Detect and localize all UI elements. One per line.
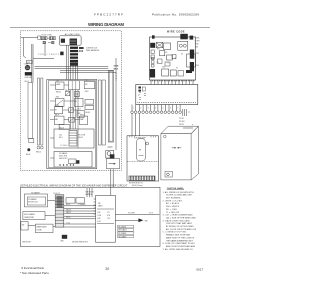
board left mid column [151, 57, 154, 60]
svg-text:DETAILED ELECTRICAL WIRING DIA: DETAILED ELECTRICAL WIRING DIAGRAM OF TH… [20, 184, 128, 187]
svg-text:WH-22: WH-22 [78, 137, 83, 139]
svg-text:RD-80: RD-80 [85, 112, 90, 114]
channel wire [115, 58, 117, 150]
svg-text:TO UI: TO UI [149, 212, 154, 214]
dispenser slot [137, 139, 146, 161]
svg-text:BK-55: BK-55 [66, 204, 70, 206]
stack side marks [79, 47, 84, 49]
title rule [10, 27, 210, 29]
svg-text:5 YL: 5 YL [107, 212, 110, 214]
svg-text:K3: K3 [181, 53, 183, 55]
svg-text:F: F [192, 124, 193, 126]
svg-text:THE SAME NUMBERING BUT: THE SAME NUMBERING BUT [166, 239, 194, 242]
svg-text:WH-55: WH-55 [66, 209, 71, 211]
svg-text:FPBC2277RF: FPBC2277RF [94, 13, 123, 17]
right channel strip 2 [102, 80, 105, 145]
ui pin numbers [133, 108, 178, 110]
thermostat box [23, 212, 45, 220]
icemaker detail box [20, 187, 160, 246]
detail vertical wires [87, 188, 92, 197]
svg-text:BR-77: BR-77 [55, 115, 59, 117]
connector box B [76, 198, 84, 204]
cabinet outline [20, 31, 121, 171]
svg-text:3. CUT = WIRE NUMBER AND: 3. CUT = WIRE NUMBER AND [163, 214, 194, 217]
svg-text:CAUTION LABEL: CAUTION LABEL [167, 187, 185, 190]
svg-text:2. WIRE COLORS:: 2. WIRE COLORS: [163, 200, 183, 202]
damper box with arrow [107, 159, 120, 169]
left heater strip B [37, 78, 39, 145]
dispenser board sub box [96, 195, 116, 242]
svg-text:FEMALE SIDE IS SHOWN: FEMALE SIDE IS SHOWN [166, 234, 191, 237]
row2 box 1 [56, 98, 65, 106]
board relay K1 [156, 43, 163, 48]
svg-text:FZ DOOR: FZ DOOR [78, 135, 86, 137]
strip A terminal [27, 148, 30, 151]
iso sketch corner circle [164, 135, 167, 138]
channel terminal [106, 151, 114, 159]
svg-text:CIRCUITS THAT MAY VARY: CIRCUITS THAT MAY VARY [166, 222, 193, 225]
right column marks [85, 100, 94, 105]
svg-text:1 BK: 1 BK [97, 212, 100, 214]
ui board comp 2 [138, 90, 141, 92]
svg-text:CN1: CN1 [195, 47, 198, 49]
board top connector 1 [180, 34, 188, 40]
board right connector 1 [190, 50, 194, 59]
row5 glyph [69, 117, 75, 122]
dispenser divider [127, 160, 159, 162]
svg-text:40-50 (Conn): 40-50 (Conn) [132, 185, 143, 187]
row4 mid box [77, 110, 84, 117]
svg-text:YL-55: YL-55 [66, 222, 70, 224]
FF light switch box [84, 82, 95, 89]
svg-text:7 GY: 7 GY [107, 218, 110, 220]
board left connector 1 [152, 35, 155, 38]
row3 box 1 [54, 107, 62, 114]
svg-text:WH-41: WH-41 [56, 91, 61, 93]
label row 1 [118, 225, 134, 228]
svg-text:WH-14: WH-14 [36, 152, 41, 154]
ui terminal pins [132, 105, 180, 111]
svg-text:CN3: CN3 [195, 65, 198, 67]
svg-text:TH: TH [55, 109, 57, 111]
wires ui to dispenser [131, 114, 133, 136]
water valve box [35, 224, 53, 233]
svg-text:C13: C13 [56, 80, 59, 82]
main power board [150, 37, 196, 80]
svg-text:SEE NOTE 7: SEE NOTE 7 [59, 158, 68, 160]
board top connector 2 [190, 36, 194, 40]
ui board pin row [138, 102, 197, 104]
wire to right 1 [115, 214, 159, 216]
switch glyph 1 [65, 91, 69, 95]
svg-text:5017: 5017 [196, 267, 203, 271]
svg-text:5. CONNECTOR PINS:: 5. CONNECTOR PINS: [163, 232, 187, 234]
svg-text:SEE NOTE 2: SEE NOTE 2 [22, 242, 31, 244]
svg-text:Q1: Q1 [174, 58, 176, 60]
run capacitor [25, 72, 32, 75]
svg-text:BK = BLACK: BK = BLACK [166, 202, 180, 205]
wire bundle verticals [70, 62, 78, 79]
coil glyph [60, 52, 63, 56]
svg-text:TN-6: TN-6 [75, 97, 78, 99]
svg-text:AC LINE CORD: AC LINE CORD [65, 33, 80, 36]
wires damper to detail box [110, 169, 112, 195]
svg-text:4 OR: 4 OR [97, 221, 100, 223]
row5 box 1 [54, 116, 64, 124]
svg-text:P/N: P/N [98, 203, 101, 205]
wire border down to starter [23, 38, 25, 57]
right channel strip 1 [98, 80, 101, 145]
svg-text:MOTOR 120V: MOTOR 120V [28, 202, 37, 204]
board comp b2 [170, 70, 176, 76]
svg-text:5: 5 [116, 80, 117, 82]
svg-text:MALE SIDE OF THE CONN IS: MALE SIDE OF THE CONN IS [166, 236, 195, 239]
dispenser switch [146, 142, 149, 145]
row3 glyph [69, 108, 74, 113]
wire horizontals to right channels [29, 44, 117, 80]
svg-text:# Functional Parts: # Functional Parts [21, 266, 44, 270]
power plug connector pair [38, 36, 56, 44]
board left connector 2 [150, 43, 155, 48]
svg-text:3 RD: 3 RD [97, 218, 100, 220]
sub box pin list [97, 212, 110, 223]
label row 2 [118, 229, 134, 232]
main channel duct [108, 71, 113, 143]
wire to right 2 [115, 219, 138, 221]
svg-text:WH = WHITE: WH = WHITE [166, 206, 180, 208]
dispenser top edge ticks [130, 136, 156, 138]
svg-text:7. ALL WIRE GAUGES ARE 18: 7. ALL WIRE GAUGES ARE 18 [163, 248, 193, 251]
svg-text:1 2 3 4 5 6: 1 2 3 4 5 6 [60, 145, 67, 147]
svg-text:LT GREEN: LT GREEN [78, 204, 85, 206]
icemaker unit inner [27, 197, 45, 205]
freezer sub box [54, 129, 94, 148]
svg-text:SEE NOTE 4: SEE NOTE 4 [85, 192, 94, 194]
svg-text:6 TN: 6 TN [107, 215, 110, 217]
icemaker wires [28, 201, 96, 227]
svg-text:RD = RED: RD = RED [166, 209, 178, 211]
board bottom pin row [151, 80, 196, 82]
svg-text:DOORS CLOSED AND UNIT: DOORS CLOSED AND UNIT [166, 194, 193, 197]
board diode marks [186, 70, 192, 73]
sub box pins [94, 199, 96, 214]
label row 3 [118, 232, 134, 235]
svg-text:WH-8: WH-8 [114, 69, 118, 71]
svg-text:3: 3 [148, 108, 149, 110]
cabinet iso sketch front face [161, 134, 191, 180]
svg-text:WIRING DIAGRAM: WIRING DIAGRAM [88, 22, 124, 27]
svg-text:TO DOOR: TO DOOR [128, 212, 136, 214]
cabinet iso sketch top face [161, 126, 199, 134]
AC line cord box [59, 36, 81, 45]
board right connector 2 [190, 62, 194, 71]
svg-text:COMP: COMP [24, 64, 29, 66]
fresh food section box inner [48, 81, 95, 168]
ui board comp 1 [138, 87, 141, 89]
interior wires in fresh food box [50, 85, 79, 158]
svg-text:4. DASH LINES INDICATE: 4. DASH LINES INDICATE [163, 219, 191, 222]
svg-text:RY1: RY1 [157, 48, 160, 50]
compressor wires [31, 44, 33, 83]
connector box A [66, 198, 75, 204]
ui terminal ticks below [183, 109, 187, 116]
fresh food section box outer [47, 80, 97, 169]
svg-text:20: 20 [105, 267, 109, 271]
svg-text:MOLD HTR: MOLD HTR [59, 156, 68, 158]
svg-text:ICE-WTR DISP: ICE-WTR DISP [134, 137, 146, 139]
svg-text:GY-44: GY-44 [55, 105, 59, 107]
wire 2 arrow [138, 218, 143, 222]
ui board comp 3 [142, 87, 145, 91]
svg-text:P2 WH: P2 WH [179, 121, 185, 123]
icemaker plug strip [55, 195, 64, 227]
wire column box [69, 81, 80, 90]
svg-text:F1: F1 [176, 67, 178, 69]
svg-text:RY2: RY2 [164, 52, 167, 54]
switch glyph 2 [75, 91, 80, 96]
board ic [187, 54, 196, 67]
svg-text:GROUND PER NOTE 3: GROUND PER NOTE 3 [72, 242, 88, 244]
iso sketch top face marks [183, 127, 193, 129]
svg-text:N: N [116, 78, 117, 80]
svg-text:* Non-Illustrated Parts: * Non-Illustrated Parts [20, 271, 50, 275]
svg-text:OR-55: OR-55 [66, 217, 71, 219]
svg-text:WH-14: WH-14 [80, 115, 85, 117]
bottom small box [59, 125, 70, 130]
PTC starter label box [27, 60, 32, 63]
pins board to ui [151, 80, 193, 85]
svg-text:NOT RUNNING.: NOT RUNNING. [166, 198, 181, 200]
dispenser heater bar [129, 176, 155, 180]
svg-text:PB: PB [139, 150, 141, 152]
notes list [163, 191, 197, 251]
svg-text:C15: C15 [85, 80, 88, 82]
board cap C1 [160, 51, 165, 56]
svg-text:CN4: CN4 [162, 67, 165, 69]
board cap C2 [167, 55, 173, 60]
svg-text:N WH: N WH [195, 41, 200, 43]
dispenser housing box [127, 136, 159, 181]
svg-text:6. CODE OF COMPONENT PLUGS: 6. CODE OF COMPONENT PLUGS [163, 243, 196, 245]
svg-text:BY MODEL OR OPTION USED.: BY MODEL OR OPTION USED. [166, 226, 194, 228]
svg-text:SW2: SW2 [56, 97, 59, 99]
row5 box 3 [79, 116, 87, 124]
board comp b6 [172, 55, 176, 59]
board transformer [178, 41, 188, 50]
svg-text:SEE: SEE [145, 220, 148, 222]
svg-text:Publication No. 5995582289: Publication No. 5995582289 [152, 13, 199, 17]
left heater strip A [28, 83, 33, 139]
icemaker comp [69, 159, 76, 164]
svg-text:D4: D4 [157, 62, 159, 64]
noise filter [70, 39, 77, 46]
fill switch box [21, 222, 28, 231]
strip A connector [29, 139, 34, 143]
svg-text:PLUG CONN: PLUG CONN [42, 35, 53, 37]
svg-text:P3 RD: P3 RD [179, 124, 185, 126]
ui board pin marks [139, 93, 146, 100]
interior tiny labels [55, 90, 90, 130]
svg-text:CN2: CN2 [195, 53, 198, 55]
board left lower connector [150, 69, 155, 78]
svg-text:VT-2: VT-2 [77, 109, 80, 111]
svg-text:T1: T1 [167, 63, 169, 65]
svg-text:C40: C40 [59, 135, 62, 137]
cabinet iso sketch side face [191, 126, 198, 180]
svg-text:WIRE CODE: WIRE CODE [167, 30, 185, 33]
svg-text:1-5: 1-5 [188, 112, 191, 114]
plug inside AC box [61, 39, 65, 43]
board comp b1 [162, 69, 169, 76]
iso sketch lower box [165, 171, 172, 177]
strip terminals [37, 146, 40, 149]
svg-text:GA. = SIZE OF THE WIRE USED: GA. = SIZE OF THE WIRE USED [166, 216, 197, 219]
FF lamp box [56, 82, 65, 90]
board comp b3 [158, 59, 163, 64]
svg-text:OR-3: OR-3 [85, 91, 89, 93]
board comp b4 [165, 62, 170, 66]
svg-text:2 WH: 2 WH [97, 215, 100, 217]
ui board box [136, 85, 198, 105]
freezer box dots [59, 164, 74, 165]
svg-text:YL = YELLOW: YL = YELLOW [166, 212, 179, 214]
left heater strip C [41, 78, 43, 145]
label row 4 [118, 235, 134, 238]
board relay K2 [164, 43, 171, 50]
ui terminal loops [131, 111, 182, 114]
icemaker sub box [54, 152, 92, 168]
svg-text:BK-66: BK-66 [26, 154, 31, 156]
connector stack [70, 47, 78, 63]
icemaker unit outer [24, 194, 47, 207]
iso sketch arrows [172, 147, 176, 149]
freezer plug ladder [69, 131, 77, 147]
bottom connector blob [62, 235, 67, 239]
board comp b5 [178, 71, 184, 77]
svg-text:GRN: GRN [114, 66, 119, 68]
svg-text:BK-12: BK-12 [65, 90, 69, 92]
compressor motor [25, 65, 30, 70]
vertical wire label [116, 73, 118, 82]
svg-text:BK-9: BK-9 [59, 137, 63, 139]
svg-text:5: 5 [163, 108, 164, 110]
svg-text:ALL DOOR CIRCUITS ARE LOW: ALL DOOR CIRCUITS ARE LOW [166, 228, 196, 231]
svg-text:ARE ON BOTH ENDS AND ARE: ARE ON BOTH ENDS AND ARE [166, 245, 196, 248]
wire to border [21, 37, 38, 39]
svg-text:COIL # 240571: COIL # 240571 [38, 54, 60, 56]
svg-text:WIRE HARNESS: WIRE HARNESS [86, 49, 100, 52]
svg-text:1. ALL WIRING IS SHOWN WITH: 1. ALL WIRING IS SHOWN WITH [163, 191, 195, 194]
row2 box 2 [75, 98, 83, 106]
